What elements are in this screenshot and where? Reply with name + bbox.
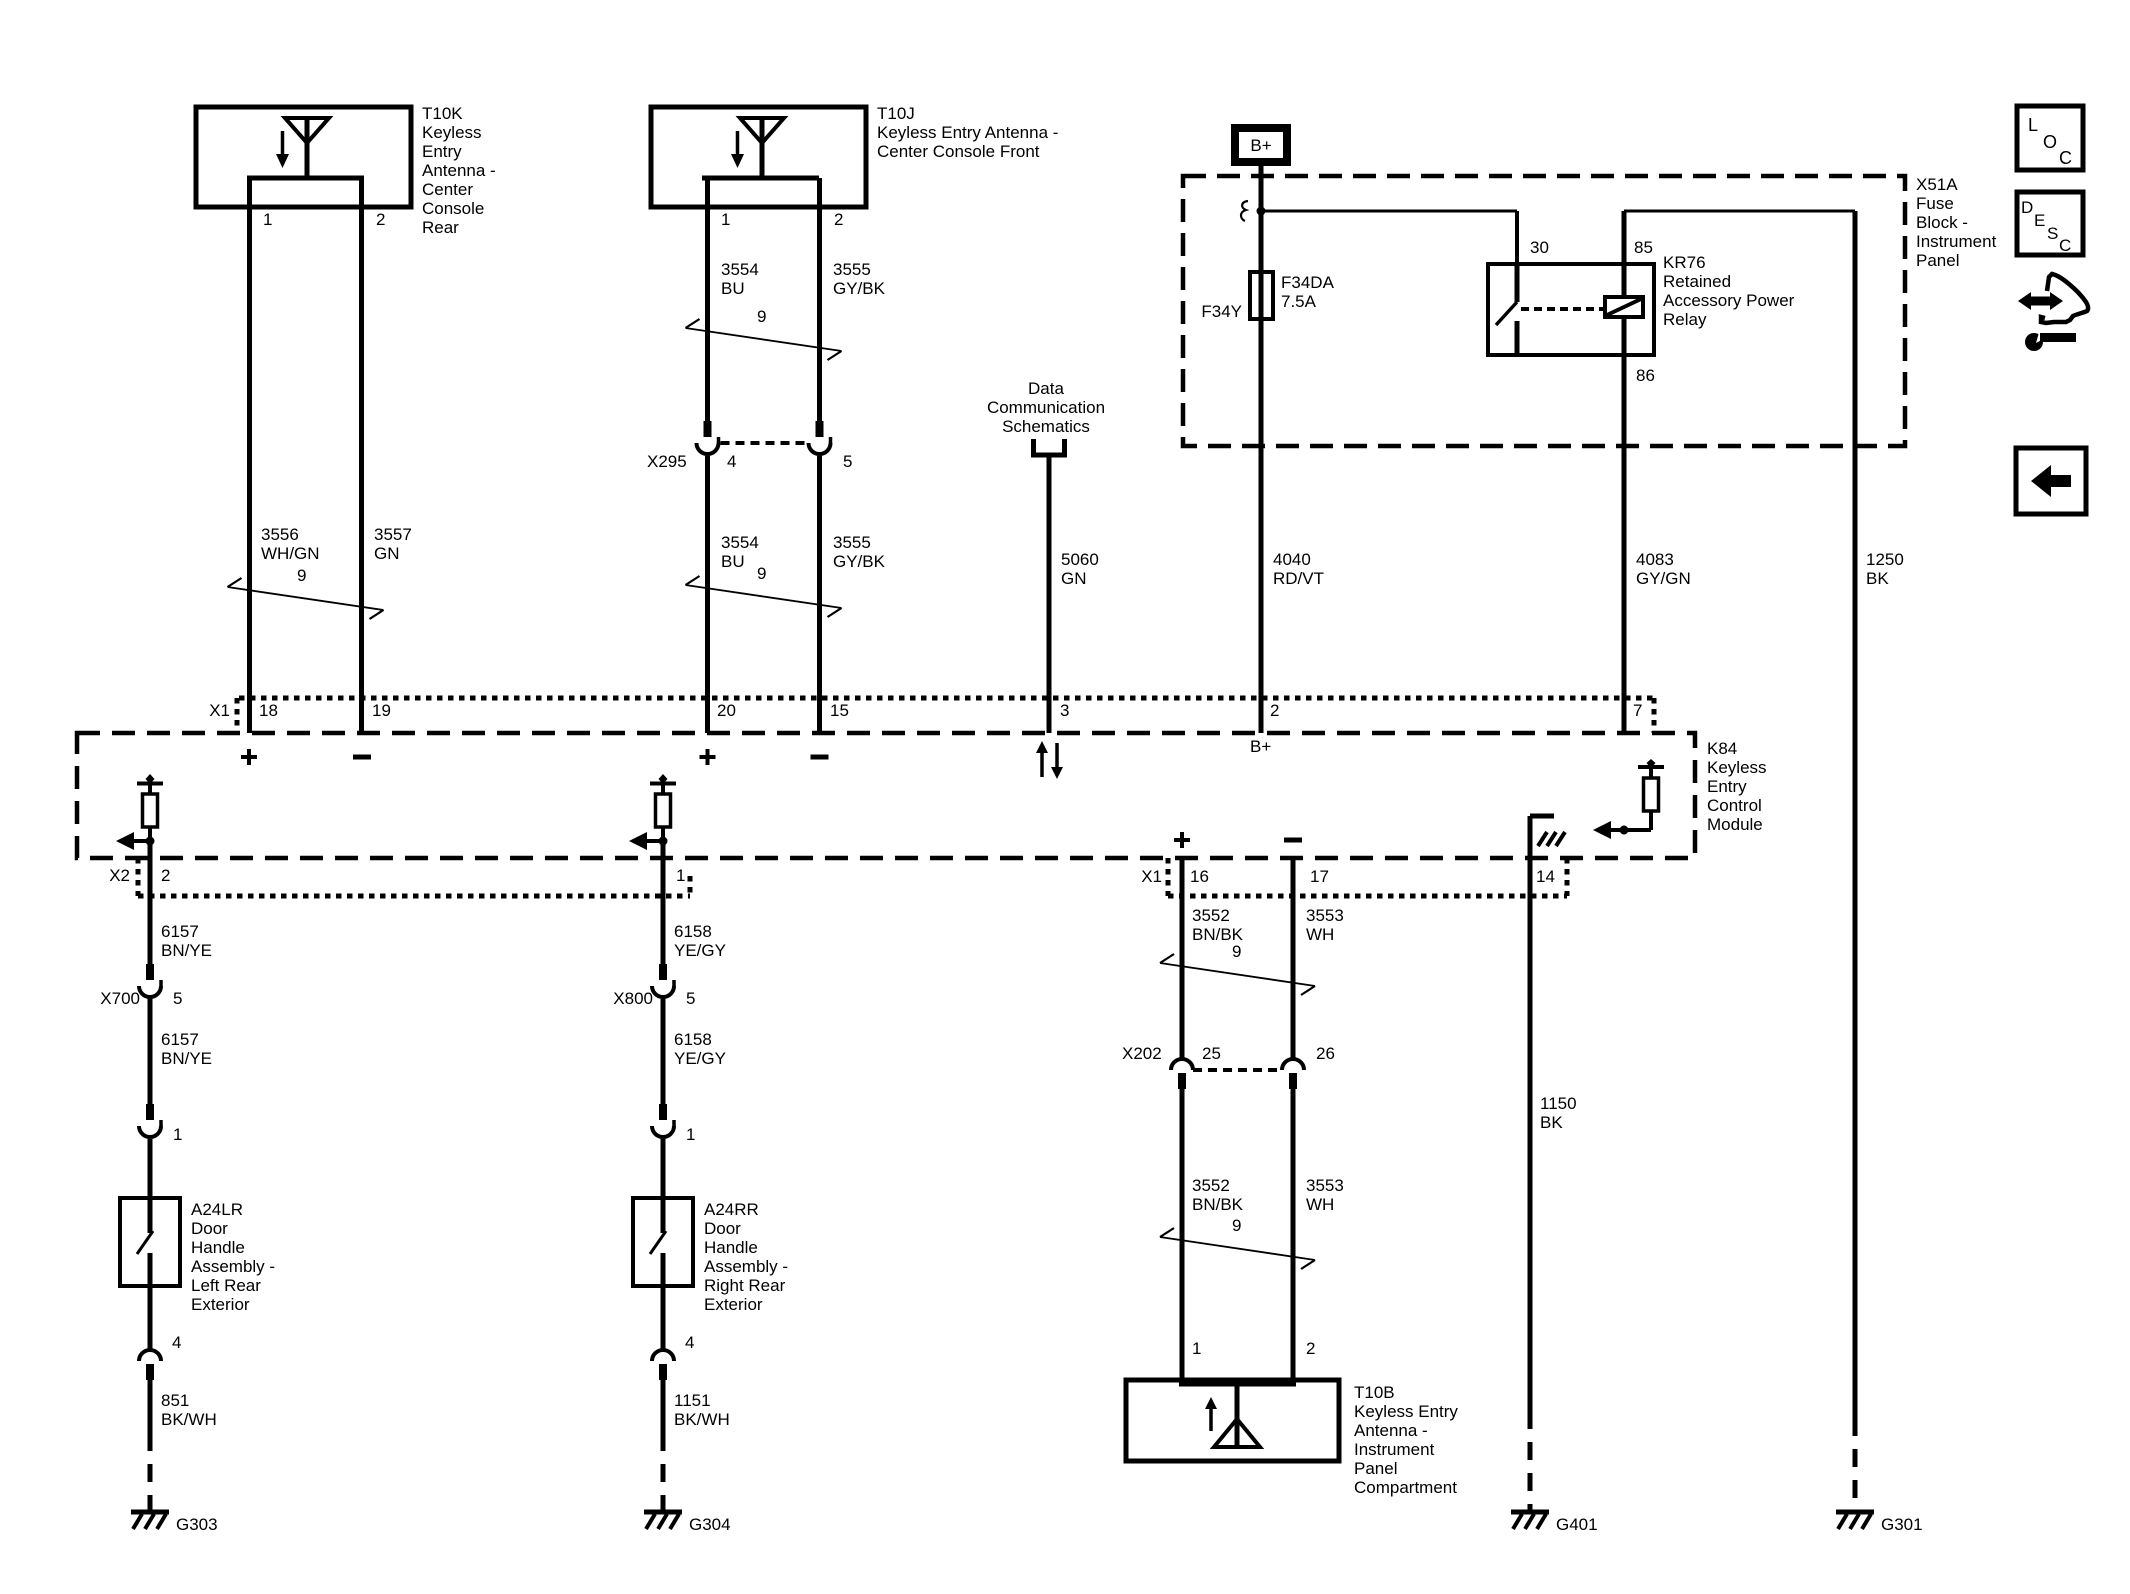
svg-text:6158: 6158 — [674, 1030, 712, 1049]
svg-text:G301: G301 — [1881, 1515, 1923, 1534]
svg-text:30: 30 — [1530, 238, 1549, 257]
svg-text:F34DA: F34DA — [1281, 273, 1335, 292]
svg-text:BK/WH: BK/WH — [674, 1410, 730, 1429]
svg-text:Exterior: Exterior — [704, 1295, 763, 1314]
svg-text:B+: B+ — [1250, 136, 1271, 155]
svg-text:1: 1 — [263, 210, 272, 229]
svg-text:Compartment: Compartment — [1354, 1478, 1457, 1497]
svg-text:RD/VT: RD/VT — [1273, 569, 1324, 588]
svg-text:GY/GN: GY/GN — [1636, 569, 1691, 588]
svg-text:X1: X1 — [209, 701, 230, 720]
svg-text:T10K: T10K — [422, 104, 463, 123]
svg-text:BK: BK — [1540, 1113, 1563, 1132]
svg-text:1: 1 — [1192, 1339, 1201, 1358]
svg-text:1151: 1151 — [674, 1391, 711, 1410]
svg-text:15: 15 — [830, 701, 849, 720]
svg-text:Schematics: Schematics — [1002, 417, 1090, 436]
svg-text:Center Console Front: Center Console Front — [877, 142, 1040, 161]
svg-text:7.5A: 7.5A — [1281, 292, 1317, 311]
svg-text:Module: Module — [1707, 815, 1763, 834]
svg-text:1: 1 — [173, 1125, 182, 1144]
svg-text:4: 4 — [685, 1333, 694, 1352]
svg-text:4040: 4040 — [1273, 550, 1311, 569]
svg-text:3553: 3553 — [1306, 1176, 1344, 1195]
svg-text:Keyless Entry Antenna -: Keyless Entry Antenna - — [877, 123, 1058, 142]
svg-text:2: 2 — [834, 210, 843, 229]
svg-text:Door: Door — [704, 1219, 741, 1238]
svg-text:Door: Door — [191, 1219, 228, 1238]
svg-text:BK/WH: BK/WH — [161, 1410, 217, 1429]
svg-text:Fuse: Fuse — [1916, 194, 1954, 213]
svg-text:Assembly -: Assembly - — [191, 1257, 275, 1276]
svg-text:Right Rear: Right Rear — [704, 1276, 786, 1295]
svg-text:C: C — [2059, 148, 2072, 168]
svg-text:16: 16 — [1190, 867, 1209, 886]
svg-text:T10B: T10B — [1354, 1383, 1395, 1402]
svg-text:2: 2 — [376, 210, 385, 229]
svg-text:T10J: T10J — [877, 104, 915, 123]
svg-text:Keyless: Keyless — [1707, 758, 1767, 777]
svg-text:7: 7 — [1633, 701, 1642, 720]
svg-text:3555: 3555 — [833, 260, 871, 279]
svg-text:S: S — [2047, 224, 2058, 243]
svg-text:Handle: Handle — [704, 1238, 758, 1257]
svg-text:18: 18 — [259, 701, 278, 720]
svg-text:Instrument: Instrument — [1916, 232, 1997, 251]
svg-text:4083: 4083 — [1636, 550, 1674, 569]
svg-text:E: E — [2034, 211, 2045, 230]
svg-text:9: 9 — [1232, 1216, 1241, 1235]
svg-text:L: L — [2028, 115, 2038, 135]
svg-text:BN/YE: BN/YE — [161, 1049, 212, 1068]
svg-text:G304: G304 — [689, 1515, 731, 1534]
svg-text:Entry: Entry — [422, 142, 462, 161]
svg-text:Rear: Rear — [422, 218, 459, 237]
svg-text:5060: 5060 — [1061, 550, 1099, 569]
svg-text:KR76: KR76 — [1663, 253, 1706, 272]
svg-text:Communication: Communication — [987, 398, 1105, 417]
svg-text:851: 851 — [161, 1391, 189, 1410]
svg-text:Instrument: Instrument — [1354, 1440, 1435, 1459]
svg-text:17: 17 — [1310, 867, 1329, 886]
svg-text:Block -: Block - — [1916, 213, 1968, 232]
svg-text:9: 9 — [757, 564, 766, 583]
svg-text:86: 86 — [1636, 366, 1655, 385]
svg-text:26: 26 — [1316, 1044, 1335, 1063]
svg-text:9: 9 — [297, 566, 306, 585]
svg-text:3553: 3553 — [1306, 906, 1344, 925]
svg-text:WH: WH — [1306, 925, 1334, 944]
svg-text:K84: K84 — [1707, 739, 1737, 758]
svg-text:1150: 1150 — [1540, 1094, 1577, 1113]
svg-text:3554: 3554 — [721, 260, 759, 279]
svg-text:Center: Center — [422, 180, 473, 199]
svg-text:X202: X202 — [1122, 1044, 1162, 1063]
svg-text:Retained: Retained — [1663, 272, 1731, 291]
svg-text:Data: Data — [1028, 379, 1064, 398]
svg-text:GY/BK: GY/BK — [833, 279, 886, 298]
svg-text:1250: 1250 — [1866, 550, 1904, 569]
svg-text:6157: 6157 — [161, 922, 199, 941]
svg-text:1: 1 — [686, 1125, 695, 1144]
svg-text:G401: G401 — [1556, 1515, 1598, 1534]
svg-text:Keyless: Keyless — [422, 123, 482, 142]
svg-text:4: 4 — [727, 452, 736, 471]
svg-text:X700: X700 — [100, 989, 140, 1008]
svg-text:A24LR: A24LR — [191, 1200, 243, 1219]
svg-text:3552: 3552 — [1192, 906, 1230, 925]
svg-text:Relay: Relay — [1663, 310, 1707, 329]
svg-text:YE/GY: YE/GY — [674, 941, 726, 960]
svg-text:19: 19 — [372, 701, 391, 720]
svg-text:Antenna -: Antenna - — [1354, 1421, 1428, 1440]
svg-text:WH: WH — [1306, 1195, 1334, 1214]
svg-text:X2: X2 — [109, 866, 130, 885]
svg-text:6157: 6157 — [161, 1030, 199, 1049]
svg-text:X800: X800 — [613, 989, 653, 1008]
svg-text:GN: GN — [1061, 569, 1087, 588]
svg-text:Assembly -: Assembly - — [704, 1257, 788, 1276]
svg-text:Keyless Entry: Keyless Entry — [1354, 1402, 1458, 1421]
svg-text:1: 1 — [676, 866, 685, 885]
svg-text:2: 2 — [1270, 701, 1279, 720]
svg-text:Left Rear: Left Rear — [191, 1276, 261, 1295]
svg-text:3557: 3557 — [374, 525, 412, 544]
svg-text:Exterior: Exterior — [191, 1295, 250, 1314]
svg-text:Entry: Entry — [1707, 777, 1747, 796]
svg-text:F34Y: F34Y — [1201, 302, 1242, 321]
svg-text:YE/GY: YE/GY — [674, 1049, 726, 1068]
svg-text:5: 5 — [686, 989, 695, 1008]
svg-text:O: O — [2043, 132, 2057, 152]
svg-text:5: 5 — [173, 989, 182, 1008]
svg-text:3556: 3556 — [261, 525, 299, 544]
svg-text:D: D — [2021, 198, 2033, 217]
svg-text:6158: 6158 — [674, 922, 712, 941]
svg-text:9: 9 — [1232, 942, 1241, 961]
svg-text:GN: GN — [374, 544, 400, 563]
svg-text:3554: 3554 — [721, 533, 759, 552]
svg-text:2: 2 — [1306, 1339, 1315, 1358]
svg-text:BN/BK: BN/BK — [1192, 1195, 1244, 1214]
svg-text:20: 20 — [717, 701, 736, 720]
svg-text:BU: BU — [721, 279, 745, 298]
svg-text:BU: BU — [721, 552, 745, 571]
svg-text:BN/YE: BN/YE — [161, 941, 212, 960]
svg-text:3: 3 — [1060, 701, 1069, 720]
svg-text:Accessory Power: Accessory Power — [1663, 291, 1795, 310]
svg-text:B+: B+ — [1250, 737, 1271, 756]
svg-text:GY/BK: GY/BK — [833, 552, 886, 571]
svg-text:3552: 3552 — [1192, 1176, 1230, 1195]
svg-text:9: 9 — [757, 307, 766, 326]
svg-text:1: 1 — [721, 210, 730, 229]
svg-text:Control: Control — [1707, 796, 1762, 815]
svg-text:BK: BK — [1866, 569, 1889, 588]
svg-text:Handle: Handle — [191, 1238, 245, 1257]
svg-text:85: 85 — [1634, 238, 1653, 257]
svg-text:G303: G303 — [176, 1515, 218, 1534]
svg-text:2: 2 — [161, 866, 170, 885]
svg-text:3555: 3555 — [833, 533, 871, 552]
svg-text:5: 5 — [843, 452, 852, 471]
svg-text:Panel: Panel — [1354, 1459, 1397, 1478]
svg-text:Panel: Panel — [1916, 251, 1959, 270]
svg-text:Antenna -: Antenna - — [422, 161, 496, 180]
svg-text:C: C — [2059, 236, 2071, 255]
svg-text:Console: Console — [422, 199, 484, 218]
svg-text:X51A: X51A — [1916, 175, 1958, 194]
svg-text:4: 4 — [172, 1333, 181, 1352]
svg-text:X295: X295 — [647, 452, 687, 471]
svg-text:X1: X1 — [1141, 867, 1162, 886]
svg-text:A24RR: A24RR — [704, 1200, 759, 1219]
svg-text:25: 25 — [1202, 1044, 1221, 1063]
svg-text:WH/GN: WH/GN — [261, 544, 320, 563]
svg-text:14: 14 — [1536, 867, 1555, 886]
